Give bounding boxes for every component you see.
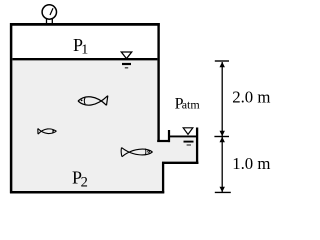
water fill region xyxy=(11,59,197,192)
fish F2 (small, facing right) xyxy=(38,129,57,135)
label 1.0 m xyxy=(232,154,270,173)
dimension tick at standpipe water level xyxy=(214,136,229,138)
tank top lid xyxy=(10,23,160,26)
tank right wall upper xyxy=(157,23,159,142)
tank lower right wall xyxy=(162,162,164,193)
label P1 xyxy=(73,35,88,58)
tank water level symbol xyxy=(121,52,131,68)
tank left wall xyxy=(10,23,13,193)
dimension arrow 2.0 m segment xyxy=(220,62,225,136)
pressure gauge G1 xyxy=(42,5,56,24)
label Patm xyxy=(175,95,201,112)
standpipe water level symbol xyxy=(183,128,193,145)
fish F1 (large, facing left) xyxy=(78,96,108,106)
label 2.0 m xyxy=(232,87,270,106)
passage top jog wall xyxy=(157,140,170,142)
label P2 xyxy=(72,168,88,191)
gas-water interface line xyxy=(12,58,157,60)
svg-text:1.0 m: 1.0 m xyxy=(232,154,270,173)
svg-text:2.0 m: 2.0 m xyxy=(232,87,270,106)
standpipe right wall xyxy=(196,128,198,165)
standpipe left rim wall xyxy=(168,130,170,142)
svg-text:atm: atm xyxy=(182,98,201,112)
dimension tick at tank bottom xyxy=(215,191,231,193)
dimension tick at tank water level xyxy=(215,60,229,62)
passage bottom wall xyxy=(162,162,198,164)
fish F3 (medium, facing right) xyxy=(121,148,152,157)
standpipe water surface line xyxy=(170,135,196,137)
dimension arrow 1.0 m segment xyxy=(220,137,225,192)
svg-text:1: 1 xyxy=(81,43,88,58)
svg-text:2: 2 xyxy=(81,175,88,191)
tank bottom xyxy=(10,191,164,194)
